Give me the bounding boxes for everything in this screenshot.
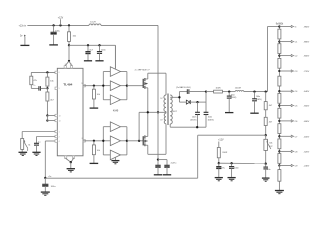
svg-text:50k: 50k xyxy=(269,143,272,145)
junction R1 bottom xyxy=(68,44,70,46)
resistor R12 bottom 680k xyxy=(278,166,281,191)
svg-text:100uH: 100uH xyxy=(235,88,242,90)
ground C16 xyxy=(163,174,171,176)
wire U2 ground stub xyxy=(114,157,116,160)
svg-text:4049: 4049 xyxy=(113,109,119,112)
transistor Q1 IRF7309-P xyxy=(143,78,148,89)
resistor R11.3 680k xyxy=(278,56,281,71)
resistor R11.7 680k xyxy=(278,121,281,136)
svg-text:10k: 10k xyxy=(97,150,100,152)
pin U1 right pin 8 xyxy=(82,138,86,142)
svg-text:10n: 10n xyxy=(267,169,270,171)
junction doubler node xyxy=(205,90,207,92)
capacitor C7 series xyxy=(179,89,206,94)
potentiometer P1 5k xyxy=(21,139,31,153)
svg-text:13: 13 xyxy=(59,115,61,117)
wire gate Q1 xyxy=(127,85,143,87)
wire Q1 drain to primary top xyxy=(148,73,166,79)
node tap C2 -800V xyxy=(278,54,310,57)
junction F2 xyxy=(253,90,255,92)
junction divider top xyxy=(265,90,267,92)
potentiometer P2 50k 10T xyxy=(264,135,274,164)
op-amp U1 TL494 body xyxy=(57,68,83,156)
transformer T1 primary xyxy=(160,73,166,154)
junction bottom rail return xyxy=(196,126,198,128)
junction gate Q2 tie xyxy=(138,140,140,142)
ground C15 xyxy=(154,174,162,176)
buffer U2D xyxy=(110,122,120,132)
node tap G -960V xyxy=(278,25,310,28)
svg-text:100R: 100R xyxy=(216,88,221,90)
wire top +12V rail xyxy=(27,24,158,26)
pin U1 bottom pin 9 xyxy=(72,156,74,159)
junction top group in xyxy=(102,85,104,87)
pin U1 left pin 14 xyxy=(55,119,61,122)
svg-text:2x47u: 2x47u xyxy=(171,162,178,164)
wire pin1 to pot xyxy=(22,132,55,139)
svg-text:200T: 200T xyxy=(172,111,178,113)
capacitor C12 10n xyxy=(263,164,270,178)
transformer T1 core xyxy=(167,94,168,126)
resistor R3 timing xyxy=(30,72,38,87)
wire U1 out B xyxy=(83,140,103,142)
svg-text:5: 5 xyxy=(59,88,60,90)
capacitor C5 1u xyxy=(34,142,40,153)
svg-text:200R: 200R xyxy=(222,152,227,154)
wire pin4 down xyxy=(45,141,55,178)
svg-text:5k: 5k xyxy=(28,144,30,146)
wire center tap row xyxy=(139,111,166,113)
svg-text:100n: 100n xyxy=(192,117,196,119)
junction F1 xyxy=(228,90,230,92)
wire HV node xyxy=(206,91,214,93)
capacitor C13 47u xyxy=(216,163,225,177)
svg-text:100n: 100n xyxy=(234,167,238,169)
wire +12V drop xyxy=(157,25,159,159)
wire bottom ground rail xyxy=(45,177,197,179)
transistor Q2 IRF7309-N xyxy=(143,135,148,146)
junction aux-C14 xyxy=(230,162,232,164)
junction colA mid xyxy=(46,87,48,89)
wire Q2 source to primary bottom xyxy=(148,145,166,154)
wire Q2 gate tie up xyxy=(138,112,140,141)
node +12V rail tag xyxy=(58,17,64,26)
svg-text:9x680k: 9x680k xyxy=(276,23,284,25)
svg-text:-240V: -240V xyxy=(303,166,309,168)
svg-text:1u: 1u xyxy=(38,142,40,144)
ground C1 xyxy=(49,44,58,46)
buffer U2E xyxy=(110,136,120,146)
ground R6 xyxy=(90,162,99,164)
svg-text:100n: 100n xyxy=(101,49,107,51)
wire Q1 source down xyxy=(147,88,149,113)
ground P1 xyxy=(19,152,28,155)
buffer U2F xyxy=(110,150,120,160)
svg-text:-480V: -480V xyxy=(303,121,309,123)
node tap C3 -720V xyxy=(278,70,310,73)
junction rail-R1 xyxy=(68,24,70,26)
svg-text:10uH: 10uH xyxy=(90,22,96,24)
junction aux node xyxy=(218,162,220,164)
pin U1 top pin 8 xyxy=(64,64,66,68)
wire U1 bottom pins join xyxy=(66,158,74,168)
junction rail-C1 xyxy=(52,24,54,26)
svg-text:+12V: +12V xyxy=(58,17,64,19)
node +12V aux xyxy=(218,140,224,142)
svg-text:2 x IRF7309 #7: 2 x IRF7309 #7 xyxy=(135,70,151,72)
node +5v xyxy=(48,176,52,178)
capacitor C11 100n 630V xyxy=(252,92,262,113)
junction pin13 xyxy=(46,114,48,116)
node tap C8 -320V xyxy=(278,150,310,153)
wire pin13 xyxy=(47,115,55,117)
ground 0v input xyxy=(20,36,29,45)
node tap C7 -400V xyxy=(278,135,310,138)
resistor R7 100R xyxy=(214,88,236,93)
ground U2 xyxy=(111,161,119,164)
inductor L2 100uH xyxy=(235,88,268,92)
svg-text:+12v in: +12v in xyxy=(19,25,27,27)
junction drop-centertap xyxy=(157,111,159,113)
svg-text:11: 11 xyxy=(81,83,83,85)
svg-text:100u: 100u xyxy=(51,186,57,188)
pin U1 left pin 13 xyxy=(55,114,61,117)
pin U1 top pin 11 xyxy=(70,64,72,68)
resistor R11.5 680k xyxy=(278,91,281,105)
ground C12 xyxy=(262,178,270,181)
junction outB-R6 xyxy=(93,140,95,142)
junction bottom-left rail xyxy=(44,177,46,179)
wire U1 out A xyxy=(83,85,103,87)
svg-text:100n: 100n xyxy=(256,96,260,98)
capacitor C2 4u7 xyxy=(85,45,93,61)
node ladder label xyxy=(276,23,284,25)
capacitor C6 100u xyxy=(42,178,56,192)
svg-text:-400V: -400V xyxy=(303,136,309,138)
junction secondary-split xyxy=(178,96,180,98)
svg-text:-720V: -720V xyxy=(303,71,309,73)
ground R5 xyxy=(90,107,99,109)
svg-text:100n: 100n xyxy=(208,117,212,119)
pin U1 right pin 11 xyxy=(81,83,85,87)
junction bottom group out xyxy=(126,140,128,142)
diode D1 xyxy=(179,100,206,104)
resistor R11.2 680k xyxy=(278,42,281,56)
wire U1 top pins to rail xyxy=(65,45,71,65)
resistor R4 4k7 xyxy=(46,88,55,115)
junction C3 xyxy=(98,44,100,46)
svg-text:-560V: -560V xyxy=(303,106,309,108)
ground C2 xyxy=(84,60,92,62)
svg-text:(630V): (630V) xyxy=(190,119,196,121)
svg-text:(2x BA159-200): (2x BA159-200) xyxy=(176,86,191,89)
wire secondary bottom out xyxy=(169,124,171,127)
svg-text:1: 1 xyxy=(59,131,60,133)
svg-text:47u: 47u xyxy=(222,167,225,169)
resistor R5 10k xyxy=(92,86,99,108)
junction outA-R5 xyxy=(93,85,95,87)
svg-text:(630V): (630V) xyxy=(208,119,214,121)
svg-text:-880V: -880V xyxy=(303,42,309,44)
ground C13 xyxy=(215,178,223,181)
ground U1 xyxy=(67,169,75,172)
wire secondary top out xyxy=(170,96,179,98)
wire U2 supply stub xyxy=(114,45,116,69)
capacitor C16 47u xyxy=(164,162,177,174)
svg-text:1k: 1k xyxy=(33,85,35,87)
pin U1 bottom pin 7 xyxy=(65,156,67,159)
svg-text:(630V): (630V) xyxy=(256,99,262,101)
resistor R9 4k7 xyxy=(264,117,273,135)
svg-text:4: 4 xyxy=(59,141,60,143)
wire Q2 drain up xyxy=(147,112,149,136)
svg-text:10k: 10k xyxy=(97,94,100,96)
junction C2 xyxy=(87,44,89,46)
resistor R11.1 680k xyxy=(278,27,281,42)
wire decoupling row xyxy=(158,160,167,165)
svg-text:-640V: -640V xyxy=(303,91,309,93)
junction source-centertap xyxy=(147,111,149,113)
resistor R8 4k7 xyxy=(264,92,273,118)
resistor R1 1k0 xyxy=(68,25,77,45)
wire 4049 bottom group parallel bus xyxy=(103,127,127,155)
junction bottom group in xyxy=(102,140,104,142)
wire aux row xyxy=(219,162,266,164)
node tap C9 -240V xyxy=(278,164,310,167)
svg-text:100u: 100u xyxy=(55,30,61,32)
node 0v input terminal xyxy=(20,35,26,38)
capacitor C15 47u xyxy=(155,160,160,175)
wire pin14 xyxy=(47,116,55,121)
inductor L1 10uH xyxy=(89,22,101,26)
junction D1 out xyxy=(196,101,198,103)
wire rectifier bottom rail xyxy=(170,126,206,128)
pin U1 left pin 1 xyxy=(55,130,60,133)
resistor R2 10k xyxy=(46,72,55,88)
ground C14 xyxy=(228,178,236,181)
svg-text:-320V: -320V xyxy=(303,151,309,153)
ground ladder xyxy=(275,191,284,194)
capacitor C9 100n 630V xyxy=(204,92,214,128)
junction top group out xyxy=(126,85,128,87)
svg-text:2: 2 xyxy=(59,136,60,138)
svg-text:6: 6 xyxy=(59,72,60,74)
buffer U2A xyxy=(110,67,120,77)
svg-text:8: 8 xyxy=(82,138,83,140)
svg-text:TL494: TL494 xyxy=(63,83,72,87)
svg-text:(630V): (630V) xyxy=(231,97,237,99)
svg-text:-800V: -800V xyxy=(303,56,309,58)
svg-text:100n: 100n xyxy=(231,94,235,96)
node tap C1 -880V xyxy=(278,40,310,43)
junction feedback xyxy=(265,134,267,136)
svg-text:+12V: +12V xyxy=(218,140,224,142)
resistor R10 200R xyxy=(217,142,227,164)
node 4049 label xyxy=(113,109,119,112)
capacitor C3 100n xyxy=(97,45,107,61)
capacitor C10 100n 630V xyxy=(227,92,237,113)
resistor R6 10k xyxy=(92,141,99,164)
resistor R11.6 680k xyxy=(278,106,281,121)
node tap C4 -640V xyxy=(278,90,310,93)
wire 4049 top group parallel bus xyxy=(103,72,127,100)
node +12v input terminal xyxy=(19,25,27,27)
ground C5 xyxy=(32,152,40,155)
node tap C6 -480V xyxy=(278,120,310,123)
ground C3 xyxy=(95,60,103,62)
junction pin6-colA xyxy=(46,71,48,73)
svg-text:G: G xyxy=(295,27,297,29)
pin U1 left pin 4 xyxy=(55,140,60,143)
resistor R11.4 680k xyxy=(278,71,281,91)
capacitor C1 100u xyxy=(51,25,61,45)
wire pin2 to C5 xyxy=(37,137,56,144)
junction pin14 xyxy=(46,119,48,121)
wire pin6 row xyxy=(31,71,55,73)
node label rectifier diodes xyxy=(176,86,191,89)
capacitor C8 100n 630V xyxy=(190,102,200,127)
wire gate Q2 xyxy=(127,140,143,142)
wire buffer supply feed xyxy=(69,45,115,68)
wire feedback xyxy=(198,135,266,178)
ground C11 xyxy=(250,112,258,114)
ground C6 xyxy=(41,192,50,195)
resistor R11.9 680k xyxy=(278,151,281,165)
junction drop-decoupling xyxy=(157,158,159,160)
wire rectifier input split xyxy=(178,92,180,103)
node label 2x IRF7309 xyxy=(135,70,151,72)
transformer T1 secondary xyxy=(170,95,177,124)
svg-text:-960V: -960V xyxy=(303,27,309,29)
pin U1 left pin 2 xyxy=(55,135,60,138)
capacitor C14 100n xyxy=(229,163,239,177)
wire HV riser xyxy=(268,27,280,92)
junction P2 bottom xyxy=(265,163,267,165)
ground C10 xyxy=(225,112,233,114)
node tap C5 -560V xyxy=(278,104,310,107)
pin U1 left pin 6 xyxy=(55,71,60,74)
svg-text:14: 14 xyxy=(59,120,61,122)
pin U1 left pin 5 xyxy=(55,87,60,90)
buffer U2B xyxy=(110,81,120,91)
resistor R11.8 680k xyxy=(278,136,281,151)
buffer U2C xyxy=(110,95,120,105)
capacitor C4 series xyxy=(31,85,47,91)
